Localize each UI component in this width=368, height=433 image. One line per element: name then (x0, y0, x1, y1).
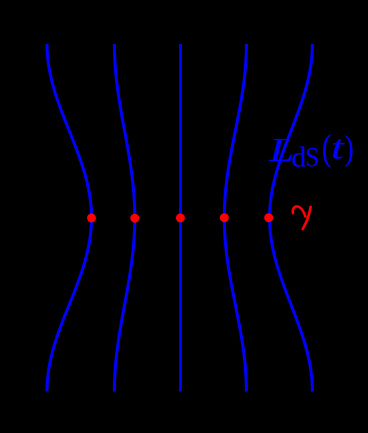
svg-text:(: ( (322, 127, 331, 168)
svg-text:t: t (331, 128, 346, 166)
svg-text:S: S (305, 142, 319, 172)
svg-text:L: L (268, 131, 294, 169)
svg-text:): ) (345, 128, 354, 167)
svg-text:d: d (291, 142, 306, 174)
